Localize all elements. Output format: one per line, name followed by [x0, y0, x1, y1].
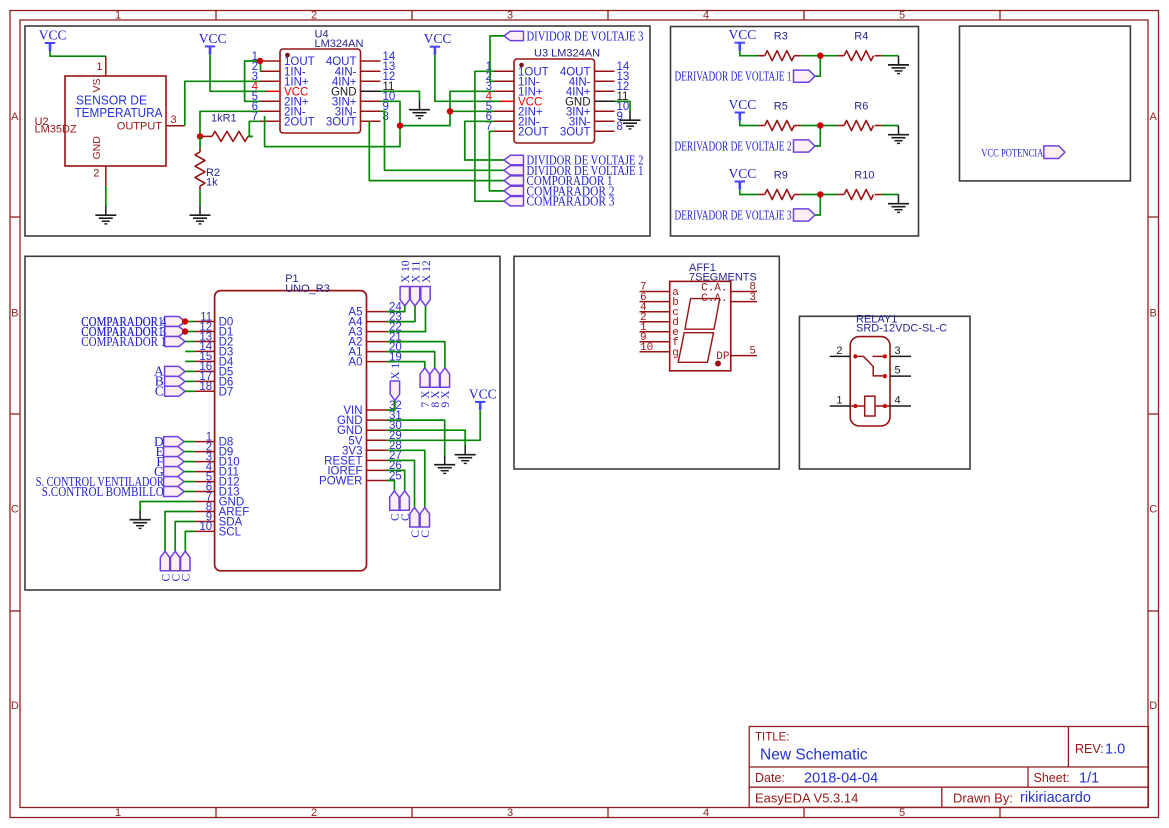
netport COMPORADOR 1 — [504, 176, 524, 185]
wire R9 to R10 — [801, 194, 837, 196]
svg-text:VS: VS — [91, 78, 103, 92]
svg-text:8: 8 — [383, 111, 389, 123]
svg-text:5: 5 — [895, 365, 901, 377]
svg-text:2018-04-04: 2018-04-04 — [804, 771, 878, 787]
netport DERIVADOR DE VOLTAJE 2 — [794, 140, 816, 152]
netport X 8 — [430, 368, 439, 388]
svg-text:1/1: 1/1 — [1079, 771, 1099, 787]
svg-text:C: C — [11, 504, 19, 516]
wire X 1 to VIN — [387, 401, 395, 411]
svg-text:3: 3 — [895, 345, 901, 357]
P1 left pins D8-SCL — [195, 441, 215, 443]
svg-text:1: 1 — [96, 61, 102, 73]
wire P1 GND pin 7 to ground — [140, 502, 195, 511]
svg-text:DERIVADOR DE VOLTAJE 1: DERIVADOR DE VOLTAJE 1 — [675, 69, 792, 84]
netport X 9 — [440, 368, 449, 388]
svg-text:VCC: VCC — [39, 27, 67, 42]
svg-text:R4: R4 — [854, 31, 868, 43]
svg-text:4: 4 — [703, 807, 709, 819]
svg-text:UNO_R3: UNO_R3 — [285, 283, 330, 295]
svg-text:VCC: VCC — [729, 166, 757, 181]
svg-text:A0: A0 — [348, 357, 362, 369]
svg-text:VCC: VCC — [729, 27, 757, 42]
ground symbol (P1 pin 31) — [444, 456, 446, 465]
ground symbol (U2) — [105, 206, 107, 215]
wire R3 to R4 — [801, 55, 837, 57]
netport G at D11 — [164, 467, 185, 477]
relay pin 1 — [830, 405, 851, 407]
wire U3 GND pin 11 to ground — [615, 101, 631, 111]
P1 right pins A5-A0 — [367, 311, 387, 313]
wire VCC to U4 VCC pin 4 — [210, 55, 268, 92]
wire U4 3IN- to netport DIVIDOR DE VOLTAJE 1 — [381, 111, 505, 170]
svg-text:R10: R10 — [854, 169, 874, 181]
svg-text:VCC: VCC — [199, 31, 227, 46]
svg-text:rikiriacardo: rikiriacardo — [1020, 790, 1091, 806]
junction at U3 2IN+ branch — [447, 108, 453, 114]
junction R1/R2/2IN- node — [197, 133, 203, 139]
svg-text:3: 3 — [171, 114, 177, 126]
ground symbol (divider R10) — [898, 195, 900, 204]
wire IOREF to netport C — [387, 470, 405, 490]
svg-text:1kR1: 1kR1 — [211, 113, 237, 125]
svg-text:A: A — [1150, 111, 1158, 123]
netport S. CONTROL VENTILADOR at D12 — [164, 477, 185, 487]
wire R6 to ground — [882, 125, 899, 127]
frame ruler ticks — [215, 11, 217, 21]
resistor R9 — [758, 194, 765, 196]
netport C (RESET) — [410, 508, 419, 528]
svg-text:C.A.: C.A. — [701, 293, 727, 305]
U2 pin 1 VS (top) — [105, 56, 107, 76]
svg-text:5: 5 — [899, 807, 905, 819]
svg-text:R5: R5 — [774, 100, 788, 112]
svg-text:X 12: X 12 — [421, 260, 433, 283]
svg-text:4: 4 — [703, 9, 709, 21]
decimal point dot — [715, 361, 721, 367]
netport COMPARADOR 1 at D2 — [165, 337, 186, 347]
wire VCC to R9 — [740, 190, 758, 195]
wire divider tap to netport DERIVADOR DE VOLTAJE 3 — [815, 195, 820, 216]
netport VCC POTENCIA — [1044, 146, 1065, 159]
wire SDA to netport C — [175, 522, 194, 552]
netport C (POWER) — [390, 491, 399, 511]
wire A5 to X 10 — [387, 306, 405, 312]
svg-text:18: 18 — [199, 381, 212, 393]
netport DIVIDOR DE VOLTAJE 3 — [504, 31, 524, 40]
svg-text:4: 4 — [895, 395, 901, 407]
wire U4 GND pin 11 to ground — [381, 91, 420, 100]
svg-text:COMPARADOR 3: COMPARADOR 3 — [527, 194, 615, 209]
netport C (bottom, x=175.2) — [171, 551, 180, 571]
svg-text:1k: 1k — [206, 177, 218, 189]
netport COMPARADOR 2 — [504, 186, 524, 195]
display AFF1 7SEGMENTS body — [670, 281, 731, 370]
svg-text:TITLE:: TITLE: — [755, 732, 790, 744]
svg-text:1: 1 — [115, 807, 121, 819]
wire VCC to 5V pin 29 — [387, 410, 481, 440]
netport DERIVADOR DE VOLTAJE 3 — [794, 209, 816, 221]
circuit block 1 border — [25, 26, 650, 236]
svg-text:TEMPERATURA: TEMPERATURA — [75, 105, 163, 120]
svg-text:EasyEDA V5.3.14: EasyEDA V5.3.14 — [755, 790, 858, 805]
wire divider tap to netport DERIVADOR DE VOLTAJE 1 — [815, 56, 820, 76]
wire VCC to U2 pin 1 — [50, 51, 106, 56]
netport X 10 — [400, 287, 409, 307]
circuit block 5 border — [514, 256, 779, 469]
netport C (bottom, x=185.3) — [181, 551, 190, 571]
U2 pin 3 OUTPUT — [166, 125, 185, 127]
svg-text:2: 2 — [311, 9, 317, 21]
relay pin 3 — [890, 355, 911, 357]
svg-text:g: g — [672, 347, 679, 359]
relay contact dots — [853, 354, 857, 358]
7-segment digit lower segment outline — [678, 333, 713, 363]
relay pin 2 — [830, 355, 851, 357]
svg-text:10: 10 — [199, 521, 212, 533]
svg-text:COMPARADOR 1: COMPARADOR 1 — [81, 334, 166, 349]
svg-text:D: D — [1149, 700, 1157, 712]
U4 pin1 marker dot — [285, 53, 290, 58]
svg-text:X 1: X 1 — [390, 363, 402, 380]
wire RESET to netport C — [387, 460, 415, 507]
svg-text:1: 1 — [115, 9, 121, 21]
wire to D0 — [185, 321, 195, 323]
wire U3 1OUT to COMPARADOR 3 — [475, 71, 504, 201]
wire stub at D4 — [185, 360, 195, 362]
wire VCC to R3 — [740, 51, 758, 56]
svg-text:D7: D7 — [219, 386, 234, 398]
wire GND pin 30 to ground — [387, 430, 466, 445]
wire VCC to U3 VCC pin 4 — [435, 55, 502, 101]
7-segment digit upper segment outline — [685, 299, 720, 330]
P1 right pins VIN-POWER — [367, 409, 387, 411]
wire R1 right to U4 2OUT — [249, 121, 260, 136]
netport S.CONTROL BOMBILLO at D13 — [164, 487, 185, 497]
svg-text:2: 2 — [311, 807, 317, 819]
U2 pin 2 GND (bottom) — [105, 166, 107, 186]
svg-text:C: C — [181, 574, 193, 582]
wire A3 to X 12 — [387, 306, 426, 332]
svg-text:POWER: POWER — [319, 476, 362, 488]
netport C (IOREF) — [400, 491, 409, 511]
svg-text:New Schematic: New Schematic — [760, 747, 868, 764]
op-amp U3 LM324AN body — [514, 59, 595, 143]
ground symbol (U3 pin 11) — [629, 111, 631, 120]
sensor U2 LM35DZ body — [65, 76, 166, 166]
wire divider tap to netport DERIVADOR DE VOLTAJE 2 — [815, 126, 820, 147]
wire A4 to X 11 — [387, 306, 416, 322]
netport COMPARADOR 3 — [504, 197, 524, 206]
title block — [749, 727, 1148, 808]
svg-text:DERIVADOR DE VOLTAJE 3: DERIVADOR DE VOLTAJE 3 — [675, 207, 792, 222]
wire U2 OUTPUT to U4 1IN+ — [185, 81, 261, 126]
U3 left pins 1-7 with numbers and names — [494, 70, 514, 72]
wire U3 2IN+ — [450, 110, 494, 112]
netport C (3V3) — [420, 508, 429, 528]
svg-text:R9: R9 — [774, 169, 788, 181]
svg-text:SCL: SCL — [219, 526, 242, 538]
svg-text:9 X: 9 X — [440, 390, 452, 408]
svg-text:VCC: VCC — [424, 31, 452, 46]
ground symbol (divider R4) — [898, 56, 900, 65]
svg-text:3OUT: 3OUT — [326, 116, 357, 128]
svg-text:SRD-12VDC-SL-C: SRD-12VDC-SL-C — [856, 323, 947, 335]
circuit block 3 border — [960, 26, 1131, 181]
wire U3 2IN- to DIVIDOR DE VOLTAJE 2 — [465, 121, 504, 160]
wire 3V3 to netport C — [387, 450, 425, 507]
U3 right pins 8-14 with numbers and names — [595, 70, 615, 72]
svg-text:D: D — [11, 700, 19, 712]
wire A2 to X 9 — [387, 342, 445, 368]
netport X 1 — [390, 381, 399, 401]
wire POWER to netport C — [387, 481, 395, 491]
wire branch to U3 1IN+ — [400, 91, 494, 125]
wire R2 to ground — [199, 190, 201, 206]
svg-text:2OUT: 2OUT — [284, 116, 315, 128]
AFF1 pin 5 DP — [731, 355, 757, 357]
svg-text:OUTPUT: OUTPUT — [117, 120, 163, 132]
wire SCL to netport C — [185, 531, 194, 551]
svg-text:B: B — [1150, 308, 1157, 320]
resistor R1 1k — [200, 135, 212, 137]
svg-text:1: 1 — [836, 395, 842, 407]
svg-text:2: 2 — [93, 168, 99, 180]
svg-text:R3: R3 — [774, 31, 788, 43]
svg-text:C: C — [1149, 504, 1157, 516]
junction divider tap R9/R10 — [817, 191, 823, 197]
svg-text:C: C — [420, 530, 432, 538]
netport A at D5 — [165, 366, 186, 376]
wire AREF to netport C — [165, 512, 195, 552]
svg-text:LM35DZ: LM35DZ — [35, 124, 77, 136]
netport COMPARADOR 3 (overlapping COMPARADOR1) at D1 — [165, 327, 186, 337]
junction divider tap R3/R4 — [817, 53, 823, 59]
wire VCC to R5 — [740, 121, 758, 126]
junction netport D0 — [182, 318, 188, 324]
netport X 7 — [420, 368, 429, 388]
wire A1 to X 8 — [387, 352, 435, 368]
netport COMPARADOR 4 (overlapping COMPARADOR1) at D0 — [165, 317, 186, 327]
circuit block 4 border — [25, 256, 500, 590]
resistor R2 1k (vertical) — [199, 136, 201, 148]
netport C (bottom, x=165) — [160, 551, 169, 571]
wire GND pin 31 to ground — [387, 420, 445, 455]
netport DIVIDOR DE VOLTAJE 2 — [504, 155, 524, 164]
svg-text:5: 5 — [899, 9, 905, 21]
netport F at D10 — [164, 457, 185, 467]
U4 left pins 1-7 with numbers and names — [260, 60, 280, 62]
relay pin 4 — [890, 405, 911, 407]
junction on vertical riser — [397, 122, 403, 128]
circuit block 2 border — [671, 27, 919, 237]
wire U2 pin2 to ground — [105, 186, 107, 206]
netport E at D9 — [164, 447, 185, 457]
wire U4 2OUT / 3IN+ interconnect — [265, 101, 400, 146]
wire stub at D3 — [185, 350, 195, 352]
relay switch armature — [855, 356, 885, 376]
junction netport D1 — [182, 328, 188, 334]
wire R4 to ground — [882, 55, 899, 57]
AFF1 pin 3 C.A. — [731, 301, 757, 303]
op-amp U4 LM324AN body — [280, 49, 361, 133]
svg-text:DIVIDOR DE VOLTAJE 3: DIVIDOR DE VOLTAJE 3 — [527, 28, 644, 43]
netport DERIVADOR DE VOLTAJE 1 — [794, 70, 816, 82]
netport C at D7 — [165, 386, 186, 396]
svg-text:8: 8 — [617, 121, 623, 133]
svg-text:DERIVADOR DE VOLTAJE 2: DERIVADOR DE VOLTAJE 2 — [675, 138, 792, 153]
svg-text:U3 LM324AN: U3 LM324AN — [534, 48, 600, 60]
resistor R6 — [837, 125, 844, 127]
wire R5 to R6 — [801, 125, 837, 127]
U3 pin1 marker dot — [519, 63, 524, 68]
svg-text:Drawn By:: Drawn By: — [953, 790, 1013, 805]
wire to D2 — [185, 341, 195, 343]
relay coil — [850, 405, 865, 407]
netport X 12 — [421, 287, 430, 307]
wire U4 1OUT feedback to 1IN- — [260, 61, 263, 71]
junction divider tap R5/R6 — [817, 122, 823, 128]
P1 left pins D0-D7 — [195, 321, 215, 323]
resistor R5 — [758, 125, 765, 127]
svg-text:B: B — [11, 308, 18, 320]
relay RELAY1 body — [850, 337, 890, 426]
svg-text:5: 5 — [749, 346, 756, 358]
AFF1 pin 8 C.A. — [731, 291, 757, 293]
ground symbol (R2) — [199, 206, 201, 215]
svg-text:3: 3 — [507, 9, 513, 21]
U4 right pins 8-14 with numbers and names — [361, 60, 381, 62]
wire A0 to X 7 — [387, 362, 425, 368]
netport DIVIDOR DE VOLTAJE 1 — [504, 166, 524, 175]
ground symbol (P1 pin 30) — [464, 446, 466, 455]
ground symbol (divider R6) — [898, 126, 900, 135]
svg-text:REV:: REV: — [1075, 742, 1104, 756]
svg-text:10: 10 — [640, 342, 653, 354]
wire U4 1OUT to 2IN+ — [245, 61, 260, 101]
resistor R4 — [837, 55, 844, 57]
svg-text:A: A — [11, 111, 19, 123]
wire U3 1IN- to DIVIDOR DE VOLTAJE 3 — [490, 36, 504, 81]
svg-text:3: 3 — [749, 292, 756, 304]
svg-text:S.CONTROL BOMBILLO: S.CONTROL BOMBILLO — [42, 484, 164, 499]
svg-text:3: 3 — [507, 807, 513, 819]
AFF1 left pins a-g with numbers — [640, 291, 670, 293]
wire U3 2OUT to COMPARADOR 2 — [489, 131, 504, 191]
ground symbol (P1 pin 7) — [139, 511, 141, 520]
svg-text:R6: R6 — [854, 100, 868, 112]
wire U4 2IN- to R1/R2 node — [200, 111, 260, 136]
netport D at D8 — [164, 437, 185, 447]
wire to D1 — [185, 331, 195, 333]
svg-text:GND: GND — [91, 136, 103, 160]
svg-text:2: 2 — [836, 345, 842, 357]
netport B at D6 — [165, 376, 186, 386]
svg-text:3OUT: 3OUT — [560, 126, 591, 138]
ground symbol (U4 pin 11) — [419, 101, 421, 110]
svg-text:Date:: Date: — [755, 771, 785, 785]
svg-text:C: C — [155, 384, 164, 399]
circuit block 6 border — [799, 316, 970, 469]
resistor R3 — [758, 55, 765, 57]
svg-text:1.0: 1.0 — [1105, 742, 1125, 758]
svg-text:Sheet:: Sheet: — [1034, 771, 1070, 785]
svg-text:VCC: VCC — [729, 97, 757, 112]
svg-text:VCC POTENCIA: VCC POTENCIA — [981, 147, 1044, 159]
junction at U4 pin 1 — [257, 58, 263, 64]
resistor R10 — [837, 194, 844, 196]
connector P1 UNO_R3 body — [215, 291, 367, 571]
relay pin 5 — [890, 375, 911, 377]
svg-text:VCC: VCC — [469, 386, 497, 401]
wire R10 to ground — [882, 194, 899, 196]
netport X 11 — [410, 287, 419, 307]
svg-text:2OUT: 2OUT — [518, 126, 549, 138]
svg-text:LM324AN: LM324AN — [315, 38, 364, 50]
wire U4 3OUT to netport COMPORADOR 1 — [369, 121, 504, 180]
